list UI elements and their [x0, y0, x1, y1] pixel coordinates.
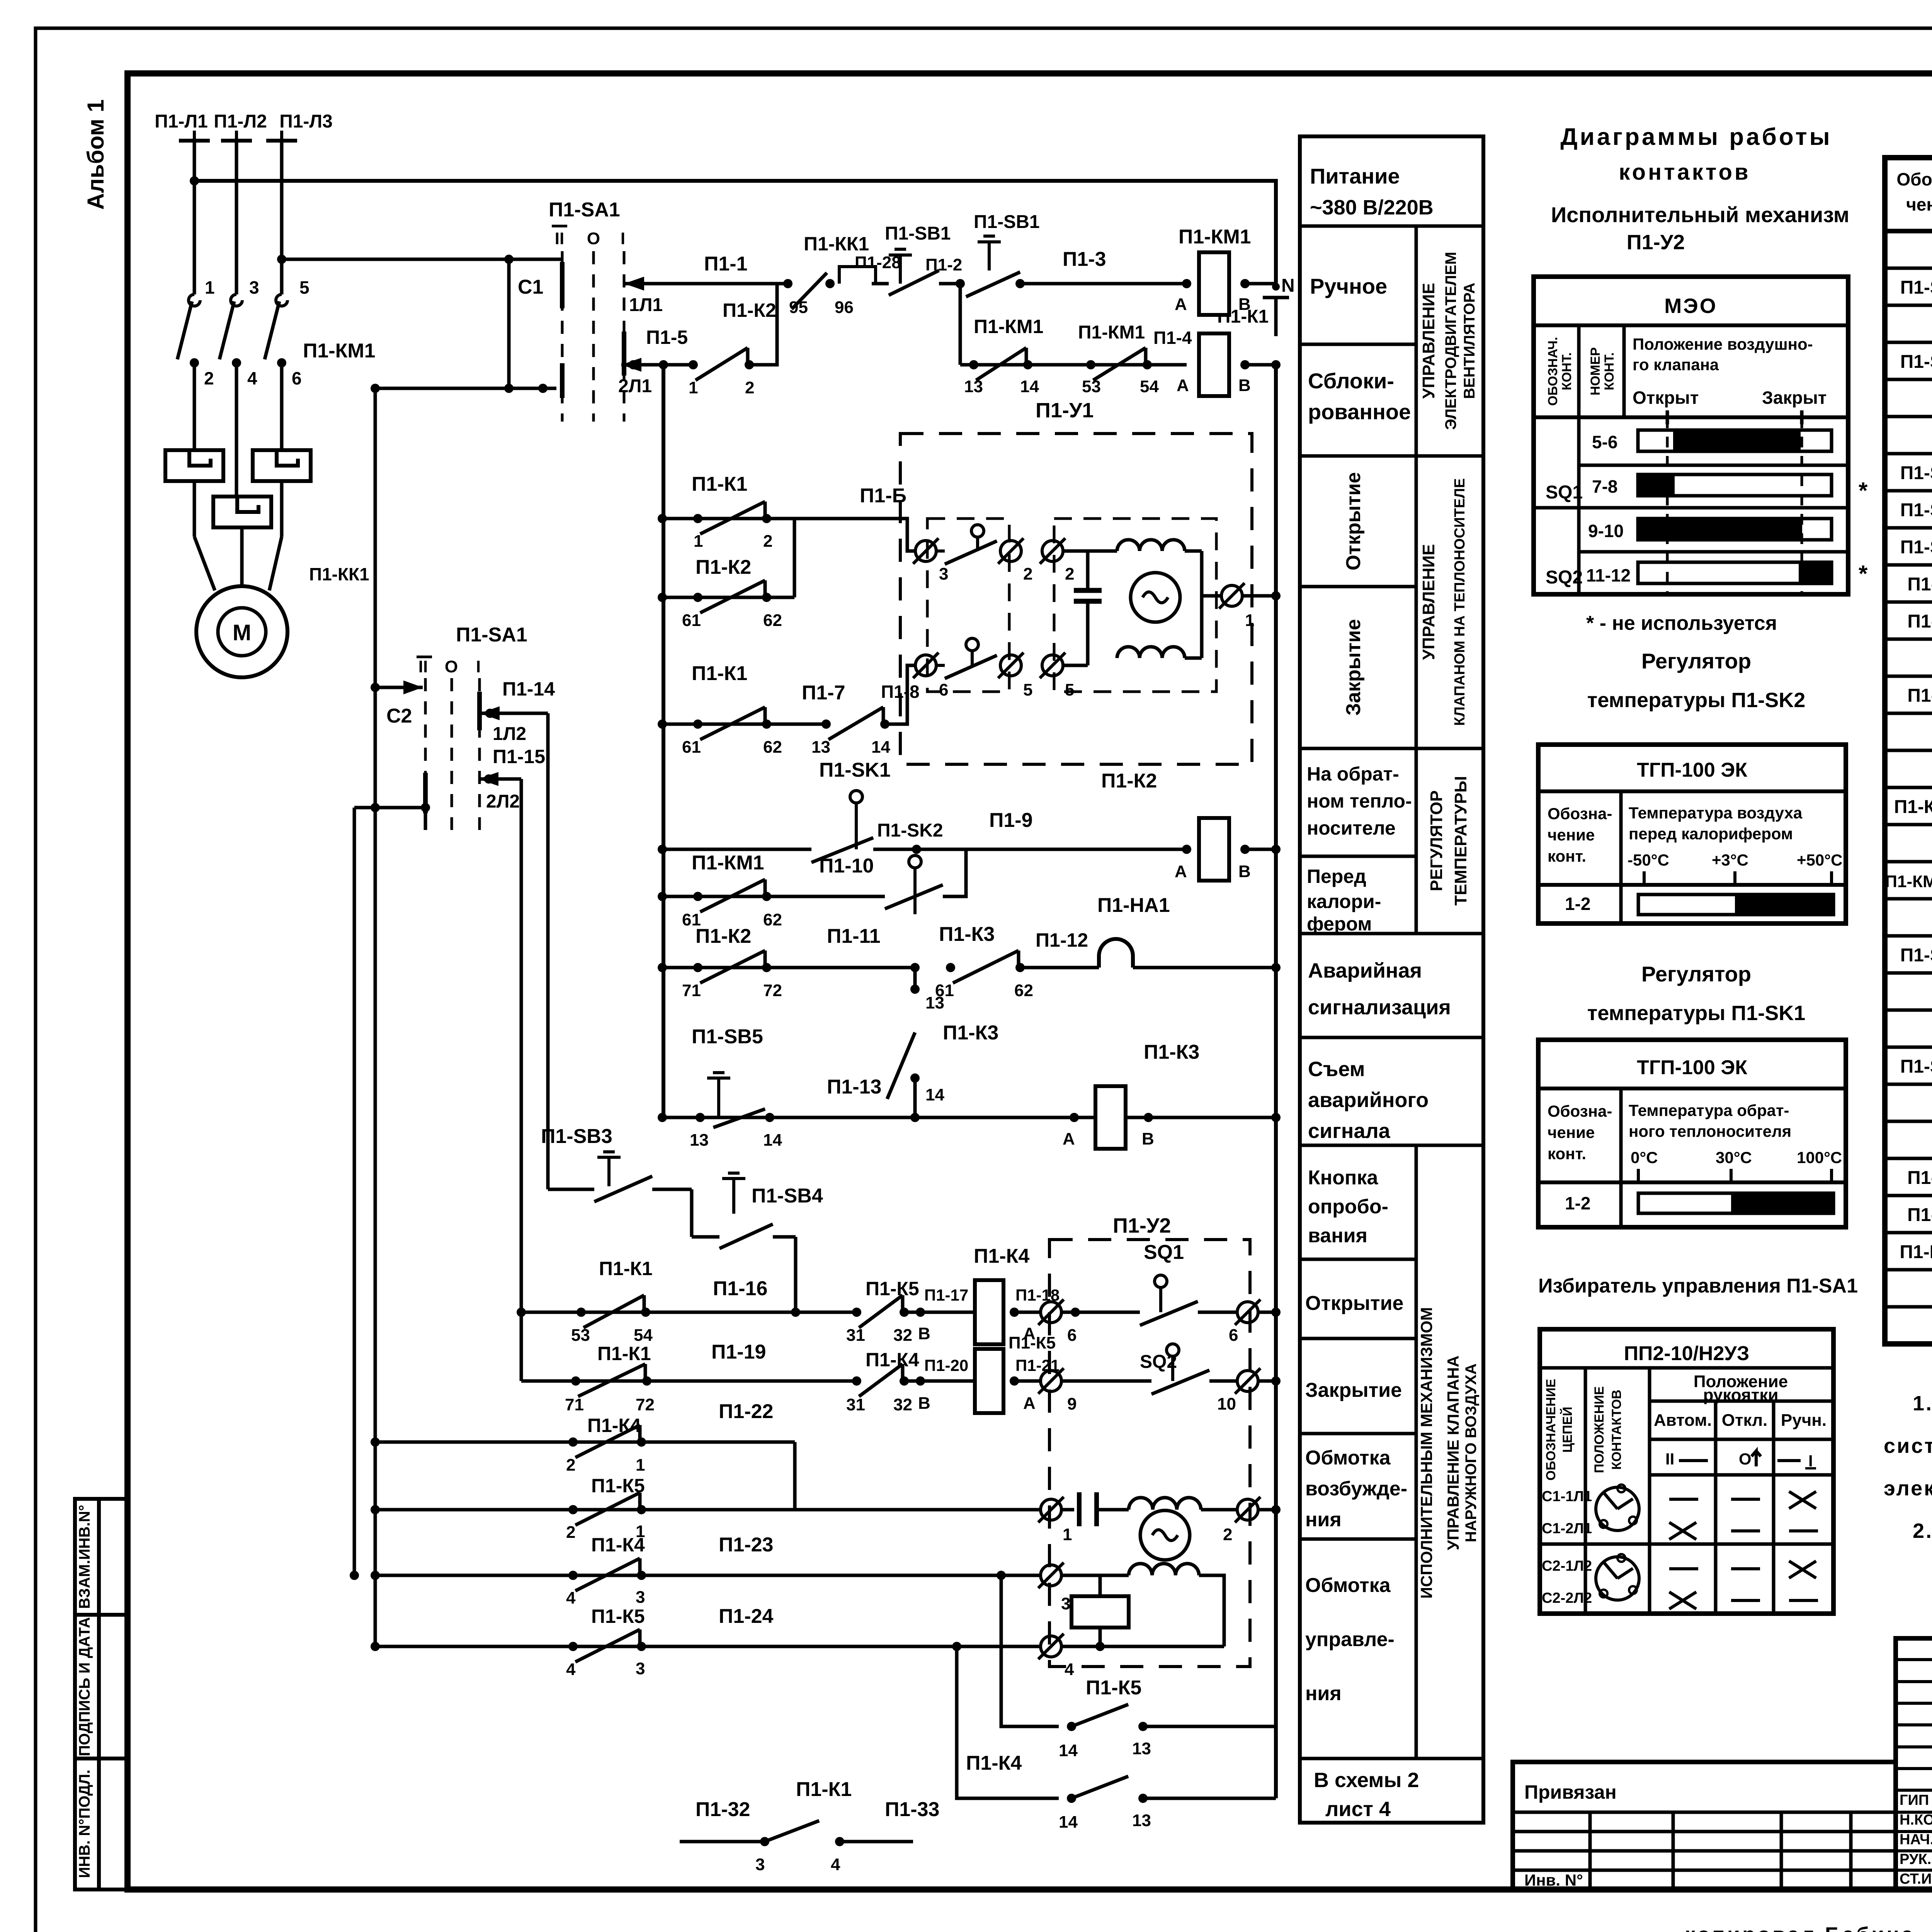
svg-text:Привязан: Привязан — [1524, 1781, 1617, 1803]
wire У1 output to N — [1242, 594, 1276, 598]
svg-text:П1-7: П1-7 — [802, 682, 845, 704]
svg-text:II: II — [418, 657, 428, 676]
svg-text:1: 1 — [636, 1456, 645, 1475]
wire row1 to winding — [1063, 549, 1117, 553]
wire C2 bus — [374, 388, 377, 1646]
ПП2 mid line — [1540, 1543, 1833, 1546]
svg-text:П1-14: П1-14 — [502, 678, 555, 700]
svg-text:3: 3 — [636, 1588, 645, 1607]
svg-text:А: А — [1177, 376, 1189, 395]
svg-text:100°С: 100°С — [1797, 1148, 1842, 1167]
element table frame — [1885, 158, 1932, 1344]
svg-text:13: 13 — [925, 993, 944, 1012]
svg-text:-50°С: -50°С — [1628, 851, 1669, 869]
svg-text:1. Схема выполнена для сист: 1. Схема выполнена для системы П1 и анал… — [1913, 1392, 1932, 1415]
svg-text:П1-1: П1-1 — [704, 253, 748, 275]
ПП2 marks row1 — [1669, 1498, 1698, 1501]
svg-text:П1-Л3: П1-Л3 — [279, 111, 333, 132]
wire phase Л3 drop — [280, 141, 284, 294]
svg-text:П1-У1: П1-У1 — [1036, 399, 1094, 422]
svg-text:Открытие: Открытие — [1305, 1292, 1403, 1315]
svg-text:П1-SA1: П1-SA1 — [1900, 277, 1932, 298]
svg-text:96: 96 — [835, 298, 854, 317]
svg-text:0°С: 0°С — [1631, 1148, 1658, 1167]
svg-text:НАРУЖНОГО ВОЗДУХА: НАРУЖНОГО ВОЗДУХА — [1463, 1364, 1480, 1543]
wire phase Л2 drop — [235, 141, 238, 294]
У1 inner dashed box — [927, 519, 1009, 692]
svg-text:I: I — [621, 229, 625, 248]
svg-text:О: О — [1739, 1450, 1752, 1468]
svg-text:62: 62 — [763, 738, 782, 757]
rotary symbol 1 — [1596, 1487, 1639, 1531]
svg-text:О: О — [587, 229, 600, 248]
svg-text:температуры П1-SK2: температуры П1-SK2 — [1587, 689, 1805, 712]
svg-text:МЭО: МЭО — [1664, 294, 1717, 318]
svg-text:П1-19: П1-19 — [711, 1341, 766, 1363]
svg-text:П1-КК1: П1-КК1 — [309, 564, 369, 584]
side box ПОДПИСЬ И ДАТА — [75, 1615, 128, 1759]
svg-text:П1-9: П1-9 — [989, 809, 1033, 832]
svg-text:П1-У2: П1-У2 — [1113, 1214, 1171, 1237]
svg-text:Закрытие: Закрытие — [1342, 619, 1365, 716]
svg-text:П1-К1: П1-К1 — [599, 1258, 653, 1279]
svg-text:Ручное: Ручное — [1310, 274, 1387, 298]
У1 row2 terminal 6 — [915, 655, 936, 676]
svg-text:71: 71 — [682, 981, 701, 1000]
svg-text:13: 13 — [811, 738, 830, 757]
svg-text:П1-К4,К5: П1-К4,К5 — [1894, 797, 1932, 817]
У2 excitation winding — [1129, 1498, 1201, 1510]
svg-text:А: А — [1175, 295, 1187, 314]
svg-text:П1-К5: П1-К5 — [1086, 1677, 1141, 1699]
У2 winding block — [1071, 1596, 1129, 1628]
svg-text:С2: С2 — [386, 705, 412, 727]
svg-text:возбужде-: возбужде- — [1305, 1478, 1407, 1500]
svg-text:П1-К4: П1-К4 — [966, 1752, 1022, 1774]
svg-text:ТГП-100 ЭК: ТГП-100 ЭК — [1637, 1056, 1747, 1079]
svg-text:П1-10: П1-10 — [819, 855, 874, 877]
svg-text:П1-SB5: П1-SB5 — [692, 1026, 763, 1048]
svg-text:П1-SB1: П1-SB1 — [1900, 537, 1932, 558]
svg-text:В: В — [918, 1324, 930, 1343]
element table rows — [1885, 267, 1932, 270]
svg-text:КОНТАКТОВ: КОНТАКТОВ — [1609, 1389, 1624, 1469]
svg-text:го клапана: го клапана — [1633, 355, 1719, 374]
svg-text:3: 3 — [636, 1659, 645, 1678]
У1 main winding — [1117, 540, 1185, 551]
side box ИНВ.№ПОДЛ. — [75, 1759, 128, 1889]
svg-text:N: N — [1281, 276, 1295, 296]
svg-text:СТ.ИНЖ.: СТ.ИНЖ. — [1900, 1871, 1932, 1887]
ПП2 marks row3 — [1669, 1567, 1698, 1570]
svg-text:опробо-: опробо- — [1308, 1196, 1388, 1218]
svg-text:конт.: конт. — [1548, 1145, 1586, 1163]
svg-text:П1-32: П1-32 — [696, 1798, 750, 1821]
svg-text:31: 31 — [846, 1326, 865, 1345]
svg-text:П1-К2: П1-К2 — [1907, 611, 1932, 632]
svg-text:1: 1 — [1063, 1525, 1072, 1544]
svg-text:1-2: 1-2 — [1565, 1193, 1590, 1213]
svg-text:Съем: Съем — [1308, 1058, 1365, 1081]
svg-text:П1-К2: П1-К2 — [723, 299, 776, 321]
svg-text:С1-1Л1: С1-1Л1 — [1542, 1488, 1592, 1505]
wire second bus drop — [353, 808, 356, 1575]
svg-text:П1-НА1: П1-НА1 — [1900, 1242, 1932, 1262]
svg-text:SQ2: SQ2 — [1546, 567, 1583, 588]
svg-text:61: 61 — [682, 738, 701, 757]
svg-text:А: А — [1175, 862, 1187, 881]
svg-text:П1-У1: П1-У1 — [1907, 1168, 1932, 1188]
svg-text:+50°С: +50°С — [1797, 851, 1842, 869]
У2 sine motor — [1140, 1510, 1190, 1560]
svg-text:П1-22: П1-22 — [719, 1400, 773, 1423]
svg-text:П1-Б: П1-Б — [860, 485, 906, 507]
svg-text:В: В — [1238, 295, 1251, 314]
svg-text:1: 1 — [689, 378, 698, 397]
wire 2Л1 rail — [621, 363, 693, 367]
svg-text:КОНТ.: КОНТ. — [1602, 352, 1617, 390]
svg-text:П1-SA1: П1-SA1 — [549, 199, 620, 221]
svg-text:перед калорифером: перед калорифером — [1629, 825, 1793, 843]
svg-text:П1-К2: П1-К2 — [696, 925, 751, 947]
МЭО column header — [1534, 415, 1848, 419]
svg-text:6: 6 — [1229, 1326, 1238, 1345]
wire C2 lower link — [354, 806, 425, 810]
function column row lines — [1300, 224, 1483, 228]
svg-text:2: 2 — [566, 1523, 575, 1542]
svg-text:4: 4 — [831, 1855, 840, 1874]
svg-text:Исполнительный механизм: Исполнительный механизм — [1551, 202, 1849, 227]
function column divider — [1415, 226, 1418, 456]
svg-text:С1: С1 — [518, 276, 543, 298]
svg-text:П1-SB3: П1-SB3 — [1900, 463, 1932, 483]
svg-text:2: 2 — [204, 368, 214, 388]
svg-text:П1-КМ1: П1-КМ1 — [303, 340, 376, 362]
svg-text:14: 14 — [1020, 377, 1039, 396]
МЭО header row — [1534, 323, 1848, 327]
svg-text:Питание: Питание — [1310, 164, 1400, 188]
title block signature table — [1896, 1638, 1932, 1889]
svg-text:УПРАВЛЕНИЕ: УПРАВЛЕНИЕ — [1419, 283, 1438, 399]
svg-text:А: А — [1063, 1129, 1075, 1148]
side box ВЗАМ.ИНВ.№ — [75, 1499, 128, 1615]
wire rung П1-4 — [959, 284, 962, 365]
svg-text:П1-4: П1-4 — [1153, 328, 1192, 348]
svg-text:Автом.: Автом. — [1654, 1411, 1712, 1430]
svg-text:Диаграммы работы: Диаграммы работы — [1560, 124, 1832, 150]
У2 terminal 2 — [1201, 1508, 1237, 1512]
svg-text:5: 5 — [1065, 680, 1074, 699]
svg-text:I: I — [476, 657, 481, 676]
svg-text:П1-11: П1-11 — [827, 925, 881, 947]
svg-text:SQ1: SQ1 — [1144, 1241, 1184, 1264]
svg-text:*: * — [1859, 561, 1868, 587]
svg-text:Перед: Перед — [1307, 866, 1366, 887]
thermal relay П1-КК1 heater A — [165, 450, 223, 481]
svg-text:ИСПОЛНИТЕЛЬНЫМ МЕХАНИЗМОМ: ИСПОЛНИТЕЛЬНЫМ МЕХАНИЗМОМ — [1417, 1307, 1435, 1599]
svg-text:рованное: рованное — [1308, 400, 1411, 424]
svg-text:II: II — [555, 229, 564, 248]
svg-text:П1-20: П1-20 — [924, 1356, 968, 1374]
svg-text:П1-24: П1-24 — [719, 1605, 774, 1628]
svg-text:Открытие: Открытие — [1342, 472, 1365, 570]
svg-text:62: 62 — [763, 611, 782, 630]
svg-text:6: 6 — [292, 368, 302, 388]
У1 row2 switch — [966, 638, 978, 651]
У1 row1 switch — [971, 525, 984, 537]
svg-text:11-12: 11-12 — [1586, 565, 1631, 585]
wire C2 tap — [375, 686, 423, 689]
У2 terminal 1 — [795, 1508, 1041, 1512]
svg-text:*: * — [1859, 478, 1868, 503]
svg-text:НАЧ.ОТД.: НАЧ.ОТД. — [1900, 1832, 1932, 1848]
svg-text:электроаппаратуры на „ П2",: электроаппаратуры на „ П2", „П3". — [1884, 1477, 1932, 1500]
У2 terminal 3 — [1001, 1574, 1041, 1577]
svg-text:КОНТ.: КОНТ. — [1560, 352, 1574, 390]
svg-text:32: 32 — [893, 1395, 912, 1414]
svg-text:носителе: носителе — [1307, 817, 1396, 839]
svg-text:5-6: 5-6 — [1592, 432, 1617, 452]
svg-text:3: 3 — [755, 1855, 765, 1874]
svg-text:5: 5 — [299, 277, 310, 298]
svg-text:М: М — [233, 620, 251, 645]
svg-text:4: 4 — [1065, 1660, 1074, 1679]
svg-text:14: 14 — [925, 1085, 944, 1104]
svg-text:1: 1 — [1245, 611, 1254, 630]
У2 terminal 10 — [1237, 1371, 1258, 1391]
svg-text:П1-SB3: П1-SB3 — [541, 1125, 612, 1148]
svg-text:П1-SB4: П1-SB4 — [1900, 500, 1932, 520]
wire 2Л2 drop — [520, 779, 523, 1381]
svg-text:2: 2 — [1023, 565, 1032, 583]
svg-text:чение: чение — [1548, 826, 1595, 844]
svg-text:7-8: 7-8 — [1592, 476, 1617, 497]
wire 1Л2 drop — [546, 713, 550, 1189]
svg-text:Обмотка: Обмотка — [1305, 1447, 1391, 1469]
svg-text:14: 14 — [1059, 1741, 1078, 1760]
У1 row1 terminal 3 — [915, 541, 936, 561]
svg-text:ном тепло-: ном тепло- — [1307, 790, 1412, 812]
svg-text:УПРАВЛЕНИЕ: УПРАВЛЕНИЕ — [1419, 544, 1438, 660]
svg-text:П1-К4: П1-К4 — [866, 1349, 919, 1371]
svg-text:П1-К3: П1-К3 — [1907, 685, 1932, 706]
svg-text:П1-К4: П1-К4 — [591, 1534, 645, 1556]
svg-text:П1-К1: П1-К1 — [692, 473, 747, 495]
svg-text:П1-К2: П1-К2 — [1101, 770, 1157, 792]
У1 secondary winding — [1117, 647, 1185, 658]
svg-text:3: 3 — [939, 565, 948, 583]
svg-text:РУК.ГР.: РУК.ГР. — [1900, 1851, 1932, 1867]
svg-text:ПП2-10/Н2УЗ: ПП2-10/Н2УЗ — [1624, 1342, 1750, 1365]
svg-text:54: 54 — [1140, 377, 1159, 396]
МЭО dashed guides — [1666, 417, 1669, 594]
svg-text:ВЗАМ.ИНВ.N°: ВЗАМ.ИНВ.N° — [76, 1505, 93, 1609]
svg-text:+3°С: +3°С — [1712, 851, 1748, 869]
У2 capacitor — [1061, 1508, 1074, 1512]
svg-text:6: 6 — [1067, 1326, 1077, 1345]
svg-text:62: 62 — [1014, 981, 1033, 1000]
svg-text:14: 14 — [1059, 1813, 1078, 1832]
ПП2 header Положение рукоятки — [1650, 1400, 1833, 1403]
svg-text:П1-2: П1-2 — [925, 255, 962, 274]
svg-text:калори-: калори- — [1307, 891, 1381, 912]
svg-text:14: 14 — [871, 738, 890, 757]
svg-text:4: 4 — [566, 1660, 576, 1679]
ПП2 verticals — [1584, 1368, 1587, 1614]
svg-text:I: I — [1808, 1452, 1813, 1470]
ПП2 header cols — [1650, 1438, 1833, 1441]
svg-text:П1-SB5: П1-SB5 — [1900, 352, 1932, 372]
svg-text:13: 13 — [964, 377, 983, 396]
svg-text:температуры П1-SK1: температуры П1-SK1 — [1587, 1002, 1805, 1025]
svg-text:П1-SK2: П1-SK2 — [877, 820, 943, 841]
svg-text:П1-SB1: П1-SB1 — [974, 212, 1040, 232]
ТГП table SK2 frame — [1538, 745, 1846, 923]
svg-text:Регулятор: Регулятор — [1641, 962, 1751, 986]
svg-text:54: 54 — [634, 1326, 653, 1345]
svg-text:2: 2 — [745, 378, 754, 397]
svg-text:П1-SB4: П1-SB4 — [752, 1185, 823, 1207]
svg-text:53: 53 — [571, 1326, 590, 1345]
svg-text:4: 4 — [566, 1588, 576, 1607]
svg-text:О: О — [445, 657, 458, 676]
МЭО table frame — [1534, 277, 1848, 594]
svg-text:ного теплоносителя: ного теплоносителя — [1629, 1122, 1791, 1140]
svg-text:Температура обрат-: Температура обрат- — [1629, 1101, 1789, 1119]
svg-text:2Л1: 2Л1 — [618, 376, 652, 396]
svg-text:Инв. N°: Инв. N° — [1524, 1871, 1583, 1889]
svg-text:ния: ния — [1305, 1509, 1342, 1531]
ПП2 table frame — [1540, 1329, 1833, 1614]
У1 motor unit dashed box — [1054, 519, 1216, 692]
svg-text:вания: вания — [1308, 1225, 1367, 1247]
svg-text:П1-23: П1-23 — [719, 1534, 773, 1556]
wire C feed link — [375, 387, 556, 390]
svg-text:В: В — [918, 1394, 930, 1413]
svg-text:14: 14 — [763, 1131, 782, 1150]
svg-text:П1-КМ1,КК1: П1-КМ1,КК1 — [1885, 872, 1932, 891]
thermal relay П1-КК1 heater B — [213, 497, 271, 527]
svg-text:Кнопка: Кнопка — [1308, 1167, 1378, 1189]
У1 sine motor — [1131, 573, 1180, 622]
У1 row1 terminal 2a — [1000, 541, 1021, 561]
thermal relay П1-КК1 heater C — [253, 450, 311, 481]
wire SB3 to SB4 link — [690, 1189, 694, 1237]
У2 terminal 6b — [1237, 1302, 1258, 1323]
svg-text:П1-К5: П1-К5 — [1009, 1333, 1056, 1352]
svg-text:П1-НА1: П1-НА1 — [1097, 894, 1170, 917]
svg-text:53: 53 — [1082, 377, 1101, 396]
svg-text:ИНВ. N°ПОДЛ.: ИНВ. N°ПОДЛ. — [76, 1770, 93, 1878]
ПП2 marks row2 — [1669, 1522, 1696, 1539]
function column frame — [1300, 136, 1483, 1823]
svg-text:П1-К1: П1-К1 — [692, 662, 747, 685]
svg-text:П1-33: П1-33 — [885, 1798, 939, 1821]
У2 terminal 6a — [1014, 1311, 1041, 1314]
svg-text:62: 62 — [763, 910, 782, 929]
svg-text:ВЕНТИЛЯТОРА: ВЕНТИЛЯТОРА — [1461, 282, 1478, 399]
svg-text:П1-SK1: П1-SK1 — [819, 759, 891, 781]
svg-text:2. Перечень элементов дан н: 2. Перечень элементов дан на одну систем… — [1913, 1519, 1932, 1543]
svg-text:сигнала: сигнала — [1308, 1119, 1391, 1143]
rotary symbol 2 — [1596, 1557, 1639, 1600]
svg-text:Обозна-: Обозна- — [1896, 169, 1932, 189]
svg-text:В: В — [1238, 862, 1251, 881]
svg-text:П1-К5: П1-К5 — [591, 1605, 645, 1627]
contact П1-К4 1-2 (П1-22) — [375, 1440, 795, 1444]
svg-text:П1-Л1: П1-Л1 — [155, 111, 208, 132]
svg-text:П1-К4: П1-К4 — [587, 1415, 641, 1436]
svg-text:31: 31 — [846, 1395, 865, 1414]
МЭО row lines — [1579, 464, 1848, 467]
svg-text:П1-КМ1: П1-КМ1 — [974, 316, 1043, 337]
svg-text:13: 13 — [1132, 1739, 1151, 1758]
svg-text:3: 3 — [249, 277, 259, 298]
svg-text:П1-SK2: П1-SK2 — [1900, 945, 1932, 966]
svg-text:Обмотка: Обмотка — [1305, 1574, 1391, 1597]
svg-text:SQ1: SQ1 — [1546, 482, 1583, 503]
svg-text:ЦЕПЕЙ: ЦЕПЕЙ — [1560, 1406, 1575, 1452]
svg-text:ОБОЗНАЧЕНИЕ: ОБОЗНАЧЕНИЕ — [1544, 1379, 1558, 1480]
svg-text:П1-У2: П1-У2 — [1907, 1205, 1932, 1225]
svg-text:ТЕМПЕРАТУРЫ: ТЕМПЕРАТУРЫ — [1451, 776, 1470, 906]
svg-text:1-2: 1-2 — [1565, 894, 1590, 914]
svg-text:30°С: 30°С — [1716, 1148, 1752, 1167]
svg-text:А: А — [1023, 1394, 1036, 1413]
svg-text:П1-К1: П1-К1 — [1907, 574, 1932, 595]
svg-text:В схемы 2: В схемы 2 — [1314, 1769, 1419, 1792]
svg-text:На обрат-: На обрат- — [1307, 763, 1399, 785]
svg-text:Обозна-: Обозна- — [1548, 1102, 1612, 1120]
svg-text:управле-: управле- — [1305, 1628, 1395, 1651]
У2 terminal 9 — [1014, 1379, 1041, 1383]
wire 1Л2 drop to SB3 — [548, 1188, 594, 1191]
svg-text:П1-SB1: П1-SB1 — [885, 223, 951, 244]
motor M — [196, 586, 287, 677]
svg-text:ОБОЗНАЧ.: ОБОЗНАЧ. — [1546, 337, 1560, 406]
svg-text:ГИП: ГИП — [1900, 1792, 1929, 1808]
svg-text:~380 В/220В: ~380 В/220В — [1310, 196, 1434, 219]
svg-text:6: 6 — [939, 680, 948, 699]
svg-text:П1-У2: П1-У2 — [1627, 231, 1685, 254]
wire SB4 drop to П1-16 — [794, 1237, 798, 1312]
svg-text:П1-К5: П1-К5 — [866, 1278, 919, 1299]
svg-text:С2-1Л2: С2-1Л2 — [1542, 1558, 1592, 1574]
svg-text:61: 61 — [682, 611, 701, 630]
svg-text:лист 4: лист 4 — [1325, 1798, 1391, 1821]
svg-text:П1-12: П1-12 — [1036, 929, 1088, 951]
wire 1Л1 rail — [624, 282, 788, 286]
svg-text:10: 10 — [1217, 1395, 1236, 1413]
svg-text:П1-5: П1-5 — [646, 327, 688, 348]
svg-text:систем П2, П3 с заменой ин: систем П2, П3 с заменой индекса „П1" в о… — [1884, 1434, 1932, 1458]
У2 terminal 4 — [1041, 1636, 1061, 1657]
svg-text:П1-3: П1-3 — [1063, 248, 1106, 270]
svg-text:ПОЛОЖЕНИЕ: ПОЛОЖЕНИЕ — [1592, 1386, 1607, 1473]
svg-text:П1-КМ1: П1-КМ1 — [692, 852, 764, 874]
wire row2 link — [1063, 664, 1088, 667]
wire left control bus 2Л1 drop — [662, 365, 665, 1117]
svg-text:П1-К3: П1-К3 — [943, 1022, 998, 1044]
svg-text:чение: чение — [1906, 194, 1932, 214]
wire phases to motor — [193, 363, 196, 450]
svg-text:чение: чение — [1548, 1123, 1595, 1141]
svg-text:2: 2 — [1223, 1525, 1232, 1544]
svg-text:4: 4 — [247, 368, 257, 388]
svg-text:ния: ния — [1305, 1682, 1342, 1705]
У1 row2 terminal 5a — [1000, 655, 1021, 676]
svg-text:П1-К3: П1-К3 — [939, 923, 995, 946]
